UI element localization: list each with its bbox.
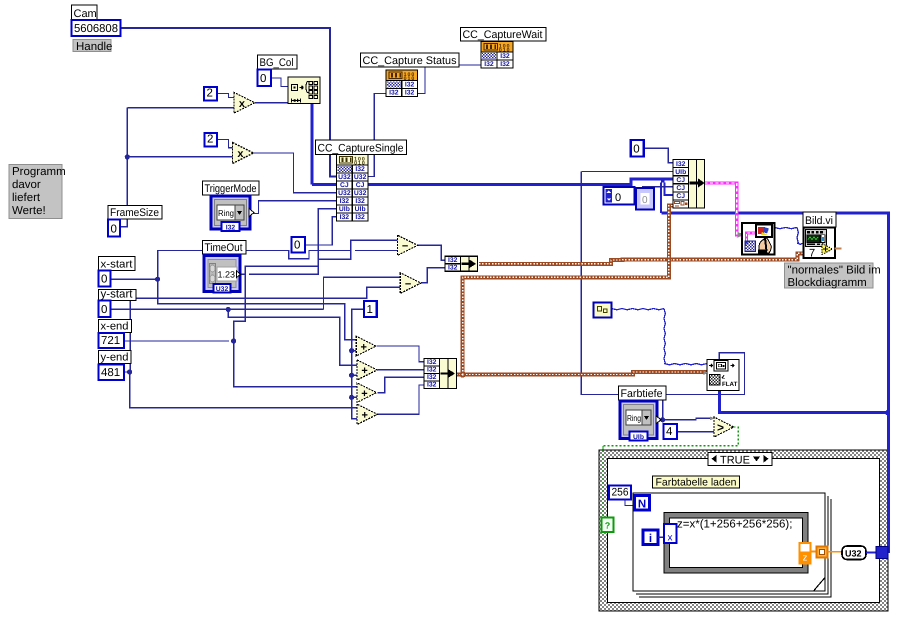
svg-text:−: − <box>405 278 411 290</box>
label y-start <box>99 290 137 301</box>
junction Farbtiefe <box>660 417 665 422</box>
cluster wire bundle1 to Bild.vi <box>479 253 804 263</box>
cluster wire bundle2 up to big bundle <box>456 206 673 375</box>
svg-text:Programm: Programm <box>12 166 66 178</box>
svg-text:CC_CaptureWait: CC_CaptureWait <box>463 29 543 41</box>
svg-text:256: 256 <box>612 487 629 499</box>
svg-text:+: + <box>361 341 367 353</box>
numeric constant FrameSize 0 <box>108 220 120 237</box>
wire Farbtiefe up left around to FLAT top <box>581 172 744 395</box>
picture wire const to FLAT a <box>612 309 665 310</box>
svg-text:TimeOut: TimeOut <box>205 242 243 254</box>
formula node <box>664 513 808 574</box>
case structure border <box>599 450 888 611</box>
wire x-end to add3 upper <box>234 341 358 387</box>
svg-text:I32: I32 <box>676 161 686 168</box>
wire image n-loop to bundle C3 row3 <box>661 182 673 214</box>
svg-text:Ring: Ring <box>627 413 641 423</box>
svg-text:+: + <box>361 365 367 377</box>
ring control Farbtiefe <box>620 401 657 439</box>
picture wire const to FLAT c <box>664 364 707 365</box>
label Farbtiefe <box>619 386 667 400</box>
numeric constant BG_Col 0 <box>258 70 272 87</box>
case selector TRUE <box>708 453 772 467</box>
svg-text:I32: I32 <box>427 367 437 374</box>
wire BG_Col to InitArray element <box>271 78 288 87</box>
svg-text:I32: I32 <box>448 257 458 264</box>
wire subtract1 to bundle1 row1 <box>417 245 445 260</box>
svg-text:I32: I32 <box>405 82 415 89</box>
formula output z <box>800 543 811 564</box>
svg-text:2: 2 <box>207 88 213 100</box>
svg-text:I32: I32 <box>427 374 437 381</box>
numeric control 0 with spinner <box>604 187 635 205</box>
wire image array long right and down <box>662 213 889 553</box>
iteration terminal i <box>643 530 658 545</box>
add node 1 <box>356 336 376 356</box>
svg-text:x: x <box>239 98 246 110</box>
svg-text:0: 0 <box>294 240 300 252</box>
svg-text:TriggerMode: TriggerMode <box>205 183 257 195</box>
svg-text:Ring: Ring <box>218 208 234 218</box>
svg-text:0: 0 <box>260 73 266 85</box>
stub add3 lower <box>352 396 357 398</box>
wire constant 4 to greater <box>677 431 714 433</box>
label y-end <box>99 351 132 364</box>
numeric indicator 0 <box>636 188 654 210</box>
wire array InitArray down <box>311 104 314 185</box>
orange wire tunnel to U32 conversion <box>828 551 843 553</box>
wire TimeOut to CC_CaptureSingle UIb row6 <box>240 209 337 274</box>
svg-text:I32: I32 <box>427 359 437 366</box>
wire y-end 481 out <box>124 371 130 373</box>
stub add1 lower <box>352 350 357 352</box>
svg-text:CJ: CJ <box>676 185 685 192</box>
svg-text:721: 721 <box>101 335 120 347</box>
wire image array over case border <box>887 413 890 553</box>
svg-text:y-end: y-end <box>101 352 129 364</box>
svg-text:Werte!: Werte! <box>12 205 46 217</box>
svg-text:"normales" Bild im: "normales" Bild im <box>788 265 881 277</box>
svg-text:FrameSize: FrameSize <box>110 207 159 219</box>
numeric constant x-start 0 <box>99 271 111 287</box>
add node 2 <box>357 360 377 380</box>
svg-text:UIb: UIb <box>339 206 350 213</box>
svg-text:UIb: UIb <box>355 206 366 213</box>
junction right bus <box>885 410 890 415</box>
wire add3 to bundle2 row3 <box>377 377 424 392</box>
numeric constant y-start 0 <box>99 301 111 318</box>
svg-text:5606808: 5606808 <box>74 23 118 35</box>
add node 3 <box>357 383 377 403</box>
svg-text:CJ: CJ <box>356 182 365 189</box>
svg-text:CJ: CJ <box>676 193 685 200</box>
label CC_CaptureSingle <box>316 140 407 155</box>
svg-text:y-start: y-start <box>101 289 134 301</box>
wire Cam handle 5606808 to CC_CaptureSingle U32 in <box>121 28 337 177</box>
junction FrameSize <box>125 154 130 159</box>
label TimeOut <box>203 241 247 255</box>
svg-text:0: 0 <box>633 144 639 156</box>
wire constant 2a to multiply1 upper <box>217 94 235 98</box>
wire multiply1 to InitArray size <box>255 102 288 104</box>
numeric constant 2a <box>204 87 217 101</box>
conversion node U32 <box>842 546 866 560</box>
numeric control TimeOut <box>204 256 241 294</box>
auto-index tunnel <box>817 547 828 558</box>
svg-text:U32: U32 <box>845 549 862 559</box>
wire Farbtiefe to greater <box>663 418 714 419</box>
svg-text:Farbtiefe: Farbtiefe <box>621 388 663 400</box>
svg-text:I32: I32 <box>500 61 510 68</box>
multiply node 1 <box>234 92 255 113</box>
svg-text:Cam: Cam <box>74 8 97 20</box>
wire FrameSize vertical <box>120 108 128 227</box>
wire y-start out <box>110 308 324 310</box>
label normales Bild im Blockdiagramm <box>785 263 874 288</box>
wire FrameSize branch to multiply1 lower <box>127 107 234 109</box>
svg-text:7: 7 <box>809 248 815 260</box>
boolean wire over case border <box>602 446 604 518</box>
label x-end <box>99 320 132 333</box>
svg-text:I32: I32 <box>340 198 350 205</box>
node Draw Flattened Pixmap <box>742 223 775 255</box>
label Handle <box>73 40 111 52</box>
svg-text:0: 0 <box>615 192 621 204</box>
svg-text:2: 2 <box>207 134 213 146</box>
wire constant 2b to multiply2 upper <box>217 140 233 148</box>
svg-text:x: x <box>237 148 244 160</box>
svg-text:I32: I32 <box>500 53 510 60</box>
picture wire draw to Bild a <box>774 227 797 228</box>
svg-text:BG_Col: BG_Col <box>260 57 294 69</box>
svg-text:Blockdiagramm: Blockdiagramm <box>788 277 867 289</box>
junction const1 b <box>349 373 354 378</box>
label x-start <box>99 257 136 271</box>
numeric constant 256 <box>609 486 631 500</box>
wire subtract2 to bundle1 row2 <box>421 268 445 283</box>
wire add4 to bundle2 row4 <box>377 385 424 414</box>
wire Farbtiefe riser <box>662 395 664 420</box>
wire array through CC_CaptureSingle C3 to bundle <box>312 179 673 185</box>
svg-text:I32: I32 <box>389 90 399 97</box>
svg-text:I32: I32 <box>355 166 365 173</box>
junction cluster <box>459 371 465 377</box>
svg-text:U32: U32 <box>338 190 351 197</box>
svg-text:I32: I32 <box>226 225 236 232</box>
svg-text:4: 4 <box>666 426 673 438</box>
svg-text:+: + <box>361 410 367 422</box>
wire indicator to bundle C3 row2 <box>642 186 673 188</box>
wire CC_Capture Status out to CC_CaptureWait <box>418 65 482 94</box>
Initialize Array node <box>288 77 320 104</box>
call node CC_Capture Status <box>386 70 418 97</box>
wire TriggerMode to CC_CaptureSingle I32 row5 <box>250 201 337 214</box>
svg-text:I32: I32 <box>355 214 365 221</box>
for loop <box>633 493 831 597</box>
svg-text:481: 481 <box>101 367 120 379</box>
svg-text:Farbtabelle laden: Farbtabelle laden <box>656 477 737 489</box>
svg-text:1.23: 1.23 <box>218 270 236 280</box>
wire 256 to N <box>625 500 635 506</box>
case selector terminal <box>602 518 614 533</box>
svg-text:CJ: CJ <box>676 177 685 184</box>
node Draw Unflattened Pixmap FLAT <box>704 360 740 391</box>
loop count N <box>635 496 650 511</box>
formula input x <box>664 524 677 544</box>
svg-text:I32: I32 <box>340 214 350 221</box>
svg-text:CC_CaptureSingle: CC_CaptureSingle <box>318 143 404 155</box>
svg-text:UIb: UIb <box>675 169 686 176</box>
svg-text:CJ: CJ <box>340 182 349 189</box>
case tunnel <box>866 552 876 554</box>
svg-text:0: 0 <box>642 195 648 206</box>
svg-text:U32: U32 <box>354 190 367 197</box>
pixmap wire bundle to draw node <box>705 183 743 235</box>
wire y-end to add4 upper <box>130 372 358 408</box>
svg-text:I32: I32 <box>355 198 365 205</box>
wire i to x <box>658 536 664 538</box>
call node CC_CaptureSingle <box>337 155 369 222</box>
svg-text:−: − <box>402 241 408 253</box>
svg-text:CC_Capture Status: CC_Capture Status <box>363 55 457 67</box>
svg-text:z: z <box>803 553 808 564</box>
wire Farbtiefe U16 to bundle UIb <box>581 171 673 173</box>
bundle node image info <box>673 160 705 209</box>
svg-text:I32: I32 <box>484 61 494 68</box>
svg-text:1: 1 <box>367 304 373 316</box>
junction y-start <box>226 307 231 312</box>
multiply node 2 <box>233 143 254 164</box>
svg-text:I32: I32 <box>448 265 458 272</box>
greater-than node <box>714 417 734 437</box>
label CC_Capture Status <box>361 53 460 67</box>
numeric constant 1 <box>364 301 377 317</box>
wire x-start out <box>110 278 158 280</box>
svg-text:Bild.vi: Bild.vi <box>805 215 833 227</box>
picture wire draw to Bild c <box>797 243 804 244</box>
svg-text:I32: I32 <box>405 90 415 97</box>
svg-text:UIb: UIb <box>633 434 644 441</box>
label Programm davor liefert Werte! <box>9 165 62 219</box>
wire add2 to bundle2 row2 <box>377 369 424 371</box>
svg-text:U32: U32 <box>354 174 367 181</box>
label CC_CaptureWait <box>461 28 547 42</box>
wire x-end to subtract1 upper <box>234 240 398 341</box>
cluster wire bundle2 to FLAT <box>463 372 707 375</box>
label Cam <box>72 5 98 20</box>
svg-text:U32: U32 <box>338 174 351 181</box>
svg-text:i: i <box>649 533 652 545</box>
boolean wire greater to case selector <box>603 427 738 518</box>
svg-text:davor: davor <box>12 179 41 191</box>
add node 4 <box>357 404 377 424</box>
svg-text:liefert: liefert <box>12 192 41 204</box>
subtract node 1 <box>397 235 417 255</box>
junction const1 c <box>349 395 354 400</box>
svg-text:Handle: Handle <box>76 41 112 53</box>
wire constant 0c to CC_CaptureSingle I32 row7 <box>305 217 337 245</box>
bundle node rect <box>424 359 457 389</box>
junction x-end <box>231 338 236 343</box>
svg-text:0: 0 <box>111 224 117 236</box>
wire constant 1 to add lower inputs <box>352 309 365 418</box>
wire y-start to subtract2 upper <box>324 277 401 309</box>
ring control TriggerMode <box>211 196 250 229</box>
picture constant empty <box>594 303 612 318</box>
wire add1 to bundle2 row1 <box>376 346 424 362</box>
orange wire z to tunnel <box>811 551 817 553</box>
junction x-start <box>155 277 160 282</box>
picture wire const to FLAT b <box>664 309 665 364</box>
numeric constant 2b <box>205 133 218 147</box>
wire FLAT output to right bus <box>719 391 888 413</box>
svg-text:>: > <box>717 421 724 435</box>
junction y-end <box>127 369 132 374</box>
wire FrameSize branch to multiply2 lower <box>127 156 232 158</box>
wire constant 0d to bundle I32 <box>644 148 673 163</box>
picture wire draw to Bild b <box>797 227 798 243</box>
svg-text:I32: I32 <box>427 382 437 389</box>
numeric constant x-end 721 <box>99 333 125 348</box>
wire Farbtiefe ring out <box>657 419 663 421</box>
numeric constant 0c <box>292 237 306 253</box>
numeric constant 4 <box>664 424 678 439</box>
label TriggerMode <box>203 181 260 195</box>
label Farbtabelle laden <box>653 476 740 488</box>
subVI node Bild.vi <box>804 228 842 260</box>
numeric constant y-end 481 <box>99 365 125 381</box>
wire x-end 721 out <box>124 340 229 342</box>
svg-text:0: 0 <box>101 304 107 316</box>
svg-text:TRUE: TRUE <box>720 455 750 467</box>
junction const1 a <box>349 348 354 353</box>
svg-text:?: ? <box>605 521 611 531</box>
svg-text:z=x*(1+256+256*256);: z=x*(1+256+256*256); <box>677 519 792 531</box>
svg-text:x-start: x-start <box>101 259 133 271</box>
wire y-end to subtract2 lower <box>130 287 400 372</box>
label BG_Col <box>258 55 298 69</box>
wire CC_CaptureSingle U32 out to CC_Capture Status <box>368 94 386 177</box>
svg-text:x: x <box>668 533 673 544</box>
subtract node 2 <box>400 273 421 294</box>
numeric constant 0d <box>631 140 644 157</box>
bundle node width-height <box>445 256 478 271</box>
svg-text:U32: U32 <box>216 286 229 293</box>
svg-text:FLAT: FLAT <box>722 381 738 388</box>
svg-text:0: 0 <box>101 274 107 286</box>
svg-text:N: N <box>638 499 646 511</box>
svg-text:+: + <box>361 388 367 400</box>
svg-text:x-end: x-end <box>101 321 129 333</box>
wire x-start to add1 upper <box>158 279 356 340</box>
wire x-start to subtract1 lower <box>158 251 398 280</box>
wire multiply2 to CC_CaptureSingle U32 row4 <box>254 153 337 193</box>
label Bild.vi <box>803 212 836 227</box>
stub add2 lower <box>352 374 357 376</box>
wire y-start to add2 upper <box>228 309 357 365</box>
call node CC_CaptureWait <box>481 42 513 69</box>
label FrameSize <box>108 206 162 220</box>
numeric constant 5606808 <box>72 20 121 36</box>
